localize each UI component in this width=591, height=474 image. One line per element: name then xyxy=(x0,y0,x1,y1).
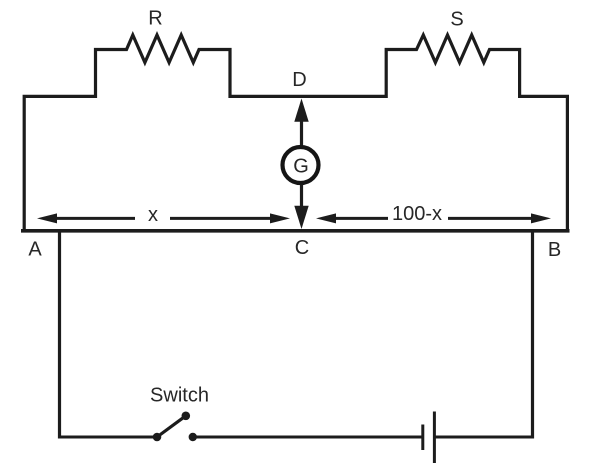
svg-text:Switch: Switch xyxy=(150,385,209,407)
svg-text:x: x xyxy=(148,204,158,226)
svg-text:C: C xyxy=(295,237,309,259)
wire top-middle horizontal through node D xyxy=(229,95,388,98)
svg-text:A: A xyxy=(28,239,42,261)
wire bottom-right segment battery to B branch xyxy=(436,436,535,439)
measurement arrow x (A to C) xyxy=(37,204,290,226)
wire middle bottom segment switch to battery xyxy=(196,436,422,439)
svg-text:G: G xyxy=(293,156,309,178)
measurement arrow 100-x (C to B) xyxy=(316,203,551,225)
svg-text:100-x: 100-x xyxy=(392,203,442,225)
galvanometer G xyxy=(283,147,319,183)
battery xyxy=(423,412,435,464)
galvanometer branch down arrow (G to C) xyxy=(294,185,308,230)
svg-text:D: D xyxy=(292,69,306,91)
wire bottom-left segment to switch xyxy=(58,436,154,439)
wire lower-left vertical from A to bottom xyxy=(58,231,61,439)
switch xyxy=(150,385,209,442)
wire lower-right vertical from B to bottom xyxy=(531,231,534,439)
bridge wire A-B xyxy=(21,229,570,233)
resistor S xyxy=(386,35,519,98)
svg-text:S: S xyxy=(450,9,463,31)
resistor R xyxy=(96,35,231,98)
svg-text:R: R xyxy=(148,8,162,30)
wire top-right horizontal and right edge B-side xyxy=(518,96,567,231)
galvanometer branch up arrow (D to G) xyxy=(294,99,308,147)
wire top-left horizontal and left edge A-side xyxy=(24,96,97,231)
svg-text:B: B xyxy=(548,239,561,261)
